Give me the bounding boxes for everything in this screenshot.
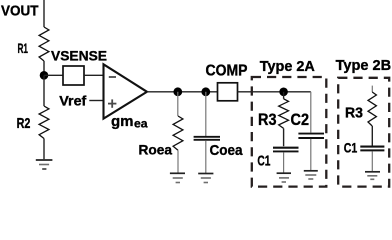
ground under R2 — [36, 160, 53, 169]
wire Vref to op-amp non-inverting input — [89, 100, 104, 102]
wire Roea to ground — [177, 150, 179, 172]
ground under C2 (Type 2A) — [304, 171, 318, 179]
capacitor C2 (Type 2A) — [298, 134, 324, 138]
svg-text:gm: gm — [111, 113, 134, 130]
junction dot at Roea branch — [173, 87, 182, 96]
wire C2 to ground — [310, 139, 312, 170]
resistor R1 — [39, 27, 49, 61]
wire Coea to ground — [205, 141, 207, 173]
op-amp non-inverting input plus sign — [108, 99, 116, 107]
svg-text:Vref: Vref — [59, 94, 86, 110]
wire R3 to C1 — [283, 128, 285, 146]
wire node down to R3 — [283, 92, 285, 99]
svg-text:Type 2B: Type 2B — [336, 58, 392, 74]
resistor R3 (Type 2B) — [368, 92, 376, 126]
Type 2A dashed box — [252, 77, 326, 187]
wire VOUT down to R1 — [43, 0, 45, 27]
wire node down to R2 — [43, 75, 45, 106]
wire node to VSENSE pin box — [44, 74, 63, 76]
wire op-amp output rail to COMP pin — [147, 91, 218, 93]
ground under Roea — [170, 173, 185, 182]
node junction dot in Type 2A — [279, 88, 288, 97]
junction dot at Coea branch — [201, 87, 210, 96]
wire stub to R3 (Type 2B) — [371, 86, 373, 92]
wire R2 to ground — [43, 139, 45, 160]
ground under C1 (Type 2B) — [365, 172, 380, 180]
svg-text:VOUT: VOUT — [1, 3, 39, 20]
svg-text:C1: C1 — [257, 152, 270, 169]
svg-text:R3: R3 — [345, 104, 363, 121]
node VSENSE junction dot — [40, 71, 49, 80]
svg-text:C1: C1 — [344, 139, 358, 155]
resistor R3 (Type 2A) — [279, 99, 289, 129]
COMP pin box — [218, 83, 238, 101]
wire down to Roea — [177, 92, 179, 116]
wire R1 to node VSENSE — [43, 61, 45, 75]
svg-text:Coea: Coea — [210, 143, 244, 159]
resistor Roea — [173, 116, 183, 150]
ground under C1 (Type 2A) — [277, 173, 291, 182]
svg-text:ea: ea — [134, 117, 148, 131]
svg-text:R1: R1 — [18, 40, 29, 56]
wire down to C2 — [310, 92, 312, 133]
capacitor Coea — [194, 137, 220, 140]
wire R3 to C1 (Type 2B) — [371, 126, 373, 146]
capacitor C1 (Type 2A) — [273, 148, 299, 152]
capacitor C1 (Type 2B) — [360, 147, 384, 151]
wire VSENSE pin to op-amp inverting input — [84, 74, 104, 76]
svg-text:C2: C2 — [291, 110, 310, 129]
svg-text:Roea: Roea — [139, 142, 173, 158]
svg-text:R2: R2 — [17, 116, 31, 132]
resistor R2 — [39, 106, 49, 139]
wire C1 to ground (Type 2B) — [371, 152, 373, 172]
svg-text:Type 2A: Type 2A — [260, 59, 316, 75]
ground under Coea — [198, 174, 213, 183]
wire C1 to ground — [283, 152, 285, 172]
VSENSE pin box — [63, 66, 84, 85]
wire down to Coea — [205, 92, 207, 136]
svg-text:R3: R3 — [258, 110, 277, 129]
op-amp gm_ea triangle — [104, 64, 148, 118]
wire COMP pin into Type 2A network — [238, 91, 311, 93]
svg-text:VSENSE: VSENSE — [51, 49, 107, 65]
svg-text:COMP: COMP — [206, 63, 248, 80]
op-amp inverting input minus sign — [109, 76, 116, 78]
label gm_ea — [111, 113, 148, 131]
Type 2B dashed box — [338, 78, 389, 187]
